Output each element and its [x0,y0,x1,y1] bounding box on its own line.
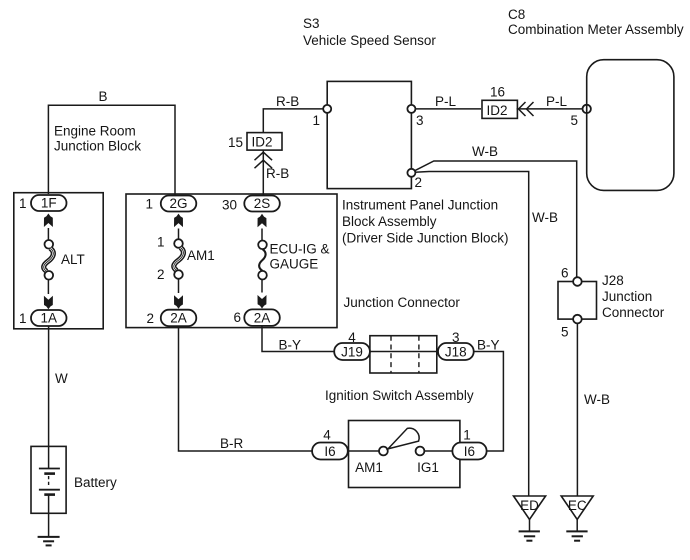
connector I6 pin 1 [452,428,486,460]
svg-text:1: 1 [19,311,27,326]
svg-text:Vehicle Speed Sensor: Vehicle Speed Sensor [303,33,436,48]
svg-text:B: B [98,89,107,104]
svg-text:W-B: W-B [584,392,610,407]
svg-text:P-L: P-L [435,94,457,109]
ground battery [38,537,60,546]
arrow down into 2A right [258,295,267,309]
wire fuse ECU to arrow [261,280,263,293]
svg-text:16: 16 [490,85,505,100]
svg-text:6: 6 [561,266,569,281]
connector 2A pin 6 [233,309,279,326]
svg-text:ID2: ID2 [251,135,272,150]
svg-text:1: 1 [19,196,27,211]
wire B [48,89,175,196]
svg-text:I6: I6 [324,444,335,459]
svg-text:P-L: P-L [546,94,568,109]
connector J18 pin 3 [438,330,474,360]
ignition switch assembly box [325,388,474,488]
svg-text:GAUGE: GAUGE [270,257,319,272]
svg-text:2S: 2S [254,196,271,211]
ground EC [561,496,593,541]
svg-text:AM1: AM1 [187,248,215,263]
ignition switch contacts AM1 IG1 [348,428,453,475]
svg-text:Block Assembly: Block Assembly [342,214,437,229]
svg-text:C8: C8 [508,7,525,22]
svg-text:Junction: Junction [602,289,652,304]
svg-text:1: 1 [463,428,471,443]
svg-text:R-B: R-B [276,94,299,109]
wire 1F to fuse [47,228,49,240]
junction connector block [344,295,461,373]
svg-text:15: 15 [228,135,243,150]
fuse ALT [44,240,85,280]
arrow up into 1F [44,214,53,228]
svg-text:4: 4 [348,330,356,345]
fuse ECU-IG and GAUGE [258,241,329,280]
wire P-L sensor pin 3 to ID2 16 [411,94,481,109]
svg-text:B-Y: B-Y [279,338,302,353]
svg-text:1: 1 [157,235,165,250]
wire W-B J28 to EC ground [577,323,610,496]
svg-text:2: 2 [415,175,423,190]
battery [31,446,117,537]
svg-text:30: 30 [222,198,237,213]
svg-text:5: 5 [570,113,578,128]
svg-text:AM1: AM1 [355,460,383,475]
svg-text:EC: EC [568,498,587,513]
svg-text:J19: J19 [341,345,363,360]
wire R-B ID2 to 2S [263,150,289,195]
connector 2G pin 1 [145,196,196,212]
wire B-R from 2A pin 2 to ignition I6 [179,326,313,451]
fuse AM1 [157,235,215,283]
label S3 Vehicle Speed Sensor [303,16,436,48]
meter pin 5 [570,105,590,128]
svg-text:Junction Block: Junction Block [54,139,141,154]
svg-text:1A: 1A [41,311,58,326]
svg-text:S3: S3 [303,16,320,31]
engine room junction block box [14,124,141,329]
svg-text:J28: J28 [602,273,624,288]
chevrons below ID2 15 [255,152,273,168]
svg-text:R-B: R-B [266,166,289,181]
chevrons right of ID2 16 [519,102,534,116]
svg-text:Engine Room: Engine Room [54,124,136,139]
svg-text:ECU-IG &: ECU-IG & [270,242,330,257]
svg-text:2A: 2A [170,311,187,326]
vehicle speed sensor box [327,81,411,188]
svg-text:J18: J18 [445,345,467,360]
junction connector J28 [558,266,665,340]
svg-text:1: 1 [145,197,153,212]
svg-text:ID2: ID2 [486,103,507,118]
instrument panel junction block box [126,194,509,328]
label C8 Combination Meter Assembly [508,7,684,37]
svg-text:(Driver Side Junction Block): (Driver Side Junction Block) [342,231,509,246]
svg-text:B-R: B-R [220,436,244,451]
combination meter assembly outline [587,60,674,191]
svg-text:1: 1 [312,113,320,128]
svg-text:Connector: Connector [602,305,665,320]
svg-text:Combination Meter Assembly: Combination Meter Assembly [508,22,684,37]
svg-text:B-Y: B-Y [477,338,500,353]
wire fuse AM1 to arrow [178,279,180,293]
wire P-L ID2 16 to meter pin 5 [517,94,587,109]
svg-text:I6: I6 [464,444,475,459]
wire R-B from sensor pin 1 to ID2 [263,94,327,133]
svg-text:2A: 2A [254,311,271,326]
svg-text:3: 3 [416,113,424,128]
sensor pin 3 [407,105,423,128]
junction ID2 pin 16 [482,85,517,119]
svg-text:W: W [55,371,68,386]
wire W-B pin 2 to ED ground [415,172,558,497]
wire W-B pin 2 to J28 [415,144,577,282]
svg-text:ALT: ALT [61,252,85,267]
svg-text:6: 6 [233,310,241,325]
connector 1A pin 1 [19,310,67,326]
svg-text:IG1: IG1 [417,460,439,475]
sensor pin 2 [407,169,422,190]
wire 2S to fuse ECU [261,229,263,241]
wire B-Y from 2A pin 6 to J19 [262,326,334,353]
arrow up into 2G [174,214,183,228]
svg-text:3: 3 [452,330,460,345]
wire 2G to fuse AM1 [178,229,180,241]
svg-text:2: 2 [157,267,165,282]
svg-text:Instrument Panel Junction: Instrument Panel Junction [342,198,498,213]
svg-text:4: 4 [323,428,331,443]
svg-text:Junction Connector: Junction Connector [344,295,461,310]
connector 2S pin 30 [222,196,280,213]
connector I6 pin 4 [312,428,348,460]
arrow down into 2A left [174,295,183,309]
svg-text:2: 2 [146,311,154,326]
wire fuse to arrow [47,280,49,294]
svg-text:Ignition Switch Assembly: Ignition Switch Assembly [325,388,474,403]
connector 2A pin 2 [146,310,196,327]
svg-text:W-B: W-B [532,210,558,225]
ground ED [514,496,546,541]
wire B-Y from J18 to ignition I6 right [474,338,504,452]
svg-text:ED: ED [520,498,539,513]
wire W battery [49,326,68,446]
sensor pin 1 [312,105,331,128]
svg-text:2G: 2G [169,196,187,211]
svg-text:Battery: Battery [74,475,117,490]
arrow up into 2S [258,214,267,228]
arrow down into 1A [44,296,53,310]
junction ID2 pin 15 [228,133,282,151]
svg-text:5: 5 [561,325,569,340]
connector 1F pin 1 [19,195,67,211]
svg-text:1F: 1F [41,196,57,211]
connector J19 pin 4 [334,330,370,360]
svg-text:W-B: W-B [472,144,498,159]
